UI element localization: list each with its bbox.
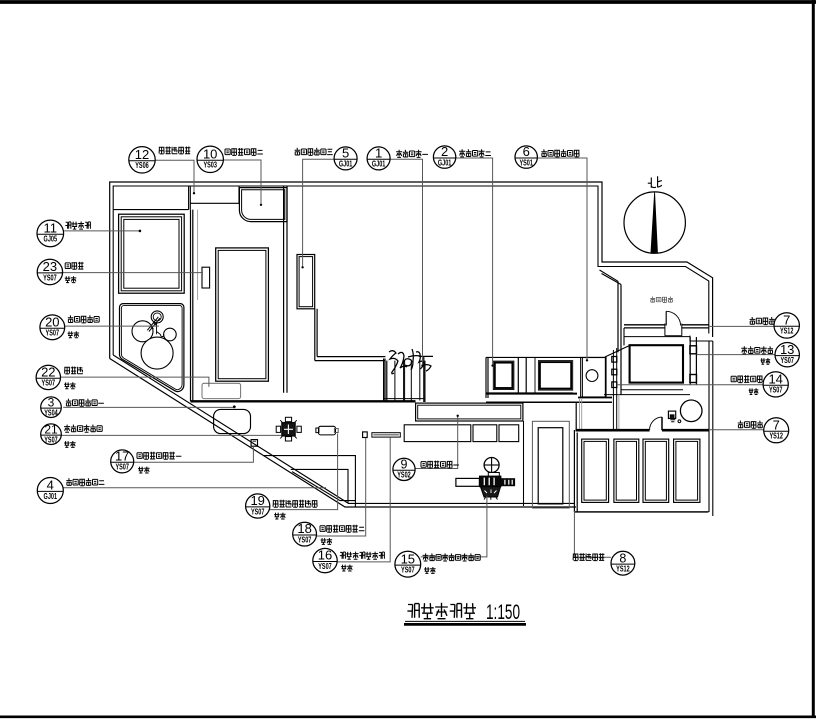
svg-text:YS01: YS01 bbox=[519, 157, 533, 167]
border frame right bbox=[812, 0, 815, 717]
play area inner bbox=[121, 305, 182, 389]
svg-text:YS12: YS12 bbox=[769, 431, 783, 441]
leader water feature C16 bbox=[337, 437, 390, 562]
label finished 23 bbox=[65, 276, 77, 282]
swing chair bbox=[202, 383, 241, 398]
planting pool 3 inner bbox=[299, 257, 313, 307]
label planting 2 bbox=[66, 478, 104, 486]
door 2 leaf bbox=[661, 417, 663, 430]
label fence a bbox=[750, 317, 775, 325]
label finished 20 bbox=[68, 331, 80, 337]
label stone column bbox=[731, 375, 762, 382]
stone column 2 bbox=[612, 369, 617, 375]
wall B bbox=[315, 309, 317, 361]
site boundary outer bbox=[110, 182, 713, 359]
callout C18 bbox=[293, 521, 317, 546]
chess table bbox=[276, 417, 301, 441]
svg-text:GJ01: GJ01 bbox=[44, 491, 58, 501]
gate zone line 2 bbox=[604, 394, 690, 396]
leader planting 1 C3 bbox=[63, 405, 236, 408]
label main gate bbox=[741, 346, 773, 354]
children bench bbox=[316, 426, 338, 435]
central lawn inner bbox=[218, 250, 266, 378]
label operating table bbox=[159, 147, 191, 154]
long planter inner bbox=[418, 405, 521, 419]
label children table bbox=[273, 500, 318, 507]
callout C8 bbox=[611, 551, 635, 575]
border frame bottom bbox=[0, 715, 816, 718]
stairs scribble bbox=[389, 349, 433, 374]
corridor top line bbox=[486, 401, 612, 403]
svg-text:YS07: YS07 bbox=[401, 565, 415, 575]
callout C2 bbox=[433, 144, 455, 168]
leader fence a C7a bbox=[709, 325, 774, 327]
pump room bbox=[578, 358, 612, 398]
pavilion outer bbox=[119, 214, 185, 293]
svg-text:YS07: YS07 bbox=[298, 534, 312, 544]
label finished 14 bbox=[749, 388, 759, 394]
pump room circle bbox=[586, 370, 598, 382]
leader planting 3 C5 bbox=[301, 159, 334, 268]
label stone lantern 2 bbox=[320, 525, 364, 532]
leader stone lantern 2 C18 bbox=[316, 438, 365, 536]
leader rockery 1 C9 bbox=[415, 415, 459, 469]
planter box 1 bbox=[493, 361, 514, 389]
gate zone line 1 bbox=[621, 389, 683, 391]
svg-text:YS07: YS07 bbox=[251, 506, 265, 516]
side planter outer bbox=[532, 421, 569, 508]
label retaining wall bbox=[573, 553, 605, 560]
leader toy car C23 bbox=[61, 272, 204, 274]
label planting 1 bbox=[66, 399, 104, 407]
side planter inner bbox=[538, 428, 563, 504]
column wall bbox=[613, 348, 616, 430]
callout C9 bbox=[393, 458, 415, 481]
mickey right ear bbox=[164, 328, 177, 341]
leader stone lantern 1 C17 bbox=[134, 446, 254, 462]
callout C1 bbox=[367, 146, 390, 170]
top strip right bbox=[190, 186, 239, 203]
callout C7b bbox=[764, 417, 789, 442]
stairs bbox=[384, 357, 425, 402]
callout C20 bbox=[40, 314, 65, 339]
callout C15 bbox=[395, 551, 421, 577]
tall planter 4 bbox=[674, 439, 700, 502]
label stone lantern 1 bbox=[137, 452, 181, 459]
svg-text:GJ01: GJ01 bbox=[339, 159, 353, 169]
side wall bbox=[523, 421, 525, 506]
leader steps 2 C2 bbox=[456, 158, 494, 367]
leader retaining wall C8 bbox=[574, 511, 611, 557]
leader children table C19 bbox=[270, 434, 338, 510]
svg-text:GJ01: GJ01 bbox=[372, 159, 386, 169]
label toy car bbox=[65, 262, 83, 269]
svg-text:YS06: YS06 bbox=[135, 160, 149, 170]
terrace edge L1 bbox=[264, 456, 355, 507]
room wall diagonal lower bbox=[605, 346, 629, 357]
leader stone lantern combo C20 bbox=[64, 325, 159, 327]
label steps 1 bbox=[396, 150, 428, 158]
block bottom outer bbox=[574, 511, 708, 513]
gate bbox=[630, 345, 683, 382]
top strip left bbox=[113, 186, 190, 210]
site boundary diagonal outer bbox=[110, 359, 576, 508]
stone column 3 bbox=[612, 382, 617, 388]
callout C11 bbox=[37, 220, 64, 247]
planter box 2 bbox=[538, 361, 572, 391]
label finished 17 bbox=[138, 467, 150, 473]
retaining wall bbox=[576, 429, 709, 432]
wall C bbox=[191, 210, 198, 402]
svg-text:1:150: 1:150 bbox=[486, 601, 520, 624]
tall planter 2 bbox=[614, 439, 639, 502]
well circle bbox=[680, 400, 702, 422]
label play equipment bbox=[423, 553, 481, 561]
pavilion mid bbox=[121, 217, 181, 291]
stone lantern stick bbox=[147, 317, 160, 332]
label chess table bbox=[64, 425, 102, 433]
tall planter 1 bbox=[582, 439, 609, 502]
label fence b bbox=[738, 421, 763, 429]
svg-text:YS02: YS02 bbox=[397, 470, 411, 480]
mickey head bbox=[132, 321, 153, 342]
boxes row frame bbox=[486, 357, 605, 398]
gate channel bbox=[690, 337, 696, 385]
label swing bbox=[64, 367, 83, 374]
row rect 3 bbox=[499, 425, 519, 442]
heavy terrace line bbox=[191, 400, 416, 402]
equipment room label bbox=[650, 297, 673, 303]
block left upper vertical bbox=[575, 403, 577, 431]
svg-text:YS07: YS07 bbox=[318, 561, 332, 571]
north needle bbox=[651, 192, 658, 253]
leader planting 4 C6 bbox=[537, 158, 588, 361]
room wall left bbox=[618, 281, 621, 394]
leader steps 1 C1 bbox=[390, 159, 424, 366]
gate hinge lower bbox=[690, 375, 697, 383]
leader pavilion C11 bbox=[64, 230, 142, 233]
room wall stub bbox=[623, 328, 625, 345]
landing edge bbox=[315, 357, 386, 361]
leader operating table C12 bbox=[155, 160, 195, 194]
retaining block frame bbox=[574, 430, 708, 512]
leader swing C22 bbox=[60, 377, 209, 387]
callout C6 bbox=[515, 144, 537, 168]
room south wall bbox=[624, 325, 709, 328]
stone lantern top circle bbox=[151, 311, 163, 323]
label rockery detail 2 bbox=[225, 148, 263, 155]
label finished 21 bbox=[64, 441, 76, 447]
room wall diagonal upper bbox=[600, 270, 622, 285]
row rect 2 bbox=[473, 425, 497, 442]
svg-text:YS07: YS07 bbox=[769, 385, 783, 395]
svg-text:YS07: YS07 bbox=[115, 462, 129, 472]
svg-text:YS12: YS12 bbox=[616, 564, 630, 574]
water feature bar bbox=[372, 433, 400, 437]
leader chess table C21 bbox=[61, 434, 281, 436]
corridor verticals bbox=[580, 395, 619, 430]
central lawn outer bbox=[216, 248, 269, 381]
toy car bbox=[202, 267, 210, 288]
label pavilion bbox=[65, 222, 90, 230]
stone lantern connector bbox=[157, 323, 164, 337]
stone lantern 2 bbox=[363, 432, 368, 438]
svg-text:GJ01: GJ01 bbox=[438, 157, 452, 167]
lamp symbol bbox=[668, 411, 680, 423]
label planting 3 bbox=[295, 148, 333, 156]
title text bbox=[407, 601, 520, 624]
rockery pool outer bbox=[239, 188, 287, 222]
play area outer bbox=[120, 304, 184, 392]
terrace edge L2 bbox=[291, 469, 348, 503]
svg-text:YS07: YS07 bbox=[46, 328, 60, 338]
north circle bbox=[624, 192, 685, 253]
door 1 leaf bbox=[665, 311, 667, 325]
boxes separator bbox=[518, 357, 535, 393]
leader main gate C13 bbox=[697, 354, 775, 356]
svg-text:YS12: YS12 bbox=[780, 326, 794, 336]
callout C23 bbox=[37, 259, 62, 285]
label finished 22 bbox=[64, 382, 76, 388]
tall planter 3 bbox=[643, 439, 669, 502]
wall A bbox=[284, 186, 287, 393]
callout C13 bbox=[775, 342, 799, 367]
label finished 19 bbox=[274, 513, 286, 519]
corridor line below room bbox=[624, 336, 690, 338]
label lantern combo bbox=[68, 315, 99, 323]
label finished 15 bbox=[424, 567, 436, 573]
planting pool 3 outer bbox=[297, 255, 315, 309]
callout C12 bbox=[129, 147, 155, 173]
svg-text:YS04: YS04 bbox=[44, 408, 58, 418]
label rockery detail 1 bbox=[421, 461, 459, 468]
terrace inner diagonal bbox=[292, 472, 355, 501]
callout C14 bbox=[763, 372, 788, 398]
label steps 2 bbox=[459, 149, 491, 157]
callout C21 bbox=[41, 422, 62, 444]
callout C3 bbox=[41, 395, 62, 417]
door 2 arc bbox=[650, 417, 662, 430]
leader rockery 2 C10 bbox=[223, 160, 262, 206]
heavy line under boxes bbox=[486, 393, 577, 395]
callout C5 bbox=[334, 146, 357, 170]
label finished 16 bbox=[341, 565, 353, 571]
callout C10 bbox=[197, 146, 223, 172]
gate hinge upper bbox=[690, 346, 697, 354]
svg-text:YS03: YS03 bbox=[203, 160, 217, 170]
planting pool 1 shape bbox=[214, 409, 251, 433]
label finished 18 bbox=[321, 538, 333, 544]
callout C4 bbox=[37, 478, 63, 504]
north label bbox=[648, 176, 662, 188]
leader play equipment C15 bbox=[421, 496, 487, 557]
door 1 jambs bbox=[665, 324, 682, 336]
svg-text:YS07: YS07 bbox=[42, 378, 56, 388]
svg-text:GJ05: GJ05 bbox=[44, 234, 58, 244]
svg-text:YS07: YS07 bbox=[43, 272, 57, 282]
play equipment bbox=[456, 457, 515, 499]
title underline bbox=[404, 621, 526, 624]
leader fence b C7b bbox=[709, 429, 764, 431]
site boundary right lower bbox=[690, 336, 713, 516]
callout C17 bbox=[111, 449, 134, 473]
door 1 arc bbox=[666, 311, 680, 325]
label finished 13 bbox=[761, 358, 771, 364]
callout C16 bbox=[313, 548, 337, 573]
callout C22 bbox=[36, 365, 60, 390]
label water feature bbox=[340, 552, 385, 560]
label planting 4 bbox=[541, 149, 579, 157]
leader planting 2 C4 bbox=[63, 487, 326, 489]
border frame top bbox=[0, 0, 816, 4]
leader stone column C14 bbox=[617, 384, 763, 386]
long planter outer bbox=[416, 403, 523, 421]
callout C19 bbox=[246, 493, 270, 518]
svg-text:YS07: YS07 bbox=[780, 355, 794, 365]
row rect 1 bbox=[404, 425, 471, 442]
svg-text:YS07: YS07 bbox=[44, 435, 58, 445]
stone column 1 bbox=[612, 357, 617, 363]
callout C7a bbox=[774, 313, 799, 339]
site boundary inner bbox=[113, 186, 709, 355]
stone lantern 1 bbox=[251, 440, 257, 447]
rockery pool inner bbox=[242, 190, 285, 220]
pavilion inner bbox=[124, 219, 179, 288]
mickey body bbox=[141, 337, 173, 369]
site boundary diagonal inner bbox=[113, 355, 575, 503]
